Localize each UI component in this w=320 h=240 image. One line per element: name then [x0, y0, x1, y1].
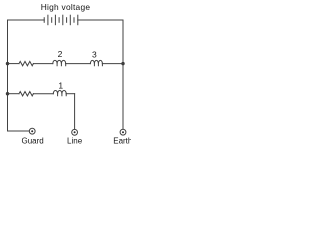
- inductor 2: [53, 60, 66, 65]
- label 1: [58, 81, 63, 91]
- svg-text:High voltage: High voltage: [41, 2, 91, 12]
- node junction right-middle: [121, 62, 124, 65]
- label 2: [58, 49, 63, 59]
- wire inductor 2 to inductor 3: [66, 63, 91, 65]
- inductor 1: [53, 91, 66, 96]
- wire left vertical: [7, 20, 9, 131]
- wire down to Line terminal: [74, 94, 76, 130]
- wire resistor to inductor 2: [33, 63, 52, 65]
- wire resistor to inductor 1: [33, 93, 53, 95]
- wire bottom-left to Guard terminal: [8, 130, 30, 132]
- node junction left-lower: [6, 92, 9, 95]
- svg-text:2: 2: [58, 49, 63, 59]
- svg-text:3: 3: [92, 49, 97, 59]
- resistor (middle row, unlabeled): [19, 61, 33, 65]
- label Guard: [21, 136, 43, 145]
- resistor (lower row, unlabeled): [19, 92, 33, 96]
- svg-text:Line: Line: [67, 136, 83, 145]
- wire right vertical: [122, 20, 124, 129]
- label Earth: [113, 136, 132, 145]
- inductor 3: [90, 60, 102, 65]
- wire lower row left: [8, 93, 20, 95]
- svg-text:Guard: Guard: [21, 136, 43, 145]
- wire top-left to battery: [8, 19, 45, 21]
- wire inductor 1 to corner: [66, 93, 74, 95]
- label High voltage: [41, 2, 91, 12]
- terminal Earth: [120, 129, 126, 135]
- svg-text:1: 1: [58, 81, 63, 91]
- node junction left-middle: [6, 62, 9, 65]
- label Line: [67, 136, 83, 145]
- wire middle row left: [8, 63, 20, 65]
- svg-text:Earth: Earth: [113, 136, 131, 145]
- label 3: [92, 49, 97, 59]
- battery B1 (multi-cell, High voltage): [44, 15, 78, 25]
- wire battery to top-right: [78, 19, 123, 21]
- terminal Line: [72, 129, 78, 135]
- wire inductor 3 to right vertical: [102, 63, 123, 65]
- terminal Guard: [29, 128, 35, 134]
